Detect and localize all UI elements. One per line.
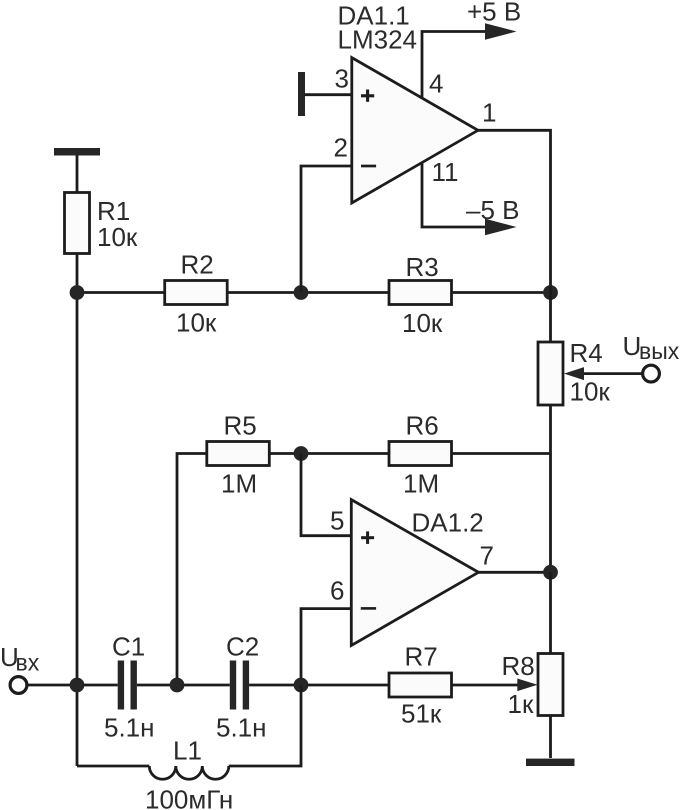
svg-text:3: 3 — [335, 64, 349, 94]
svg-text:R8: R8 — [502, 651, 535, 681]
node (pin2 junction) — [294, 285, 309, 300]
resistor R7 — [389, 673, 452, 697]
wire main row y=292 — [77, 291, 165, 294]
svg-text:11: 11 — [432, 157, 459, 187]
terminal bar (pin 3) — [298, 72, 305, 116]
+5V arrow — [485, 23, 517, 39]
svg-text:10к: 10к — [570, 377, 611, 407]
wire output pin 1 — [478, 130, 551, 292]
svg-text:7: 7 — [480, 541, 494, 571]
minus sign (pin 2 input) — [361, 165, 376, 168]
svg-text:C1: C1 — [112, 632, 145, 662]
R4 wiper arrow — [564, 367, 584, 380]
resistor R6 — [389, 442, 452, 466]
wire R2 to R3 — [227, 291, 389, 294]
input terminal circle Uвх — [10, 677, 27, 694]
wire pin 5 — [301, 454, 351, 536]
svg-text:C2: C2 — [226, 632, 259, 662]
potentiometer R4 — [538, 342, 563, 405]
svg-text:10к: 10к — [176, 308, 217, 338]
svg-text:R5: R5 — [224, 411, 257, 441]
wire R8 to ground — [549, 716, 552, 759]
svg-text:R7: R7 — [405, 642, 438, 672]
wire R4 bottom — [549, 405, 552, 572]
wire input to C1 — [28, 684, 118, 687]
wire pin 4 to +5V — [422, 32, 488, 99]
wire ground to R1 — [76, 155, 79, 193]
wire node to R4 — [549, 293, 552, 343]
wire pin 2 — [301, 166, 352, 293]
svg-text:1к: 1к — [508, 689, 534, 719]
wire R7 to R8 wiper — [452, 684, 522, 687]
svg-text:R4: R4 — [570, 338, 603, 368]
wire output pin 7 — [479, 571, 551, 574]
svg-text:DA1.2: DA1.2 — [412, 508, 484, 538]
resistor R2 — [165, 281, 228, 305]
svg-text:4: 4 — [429, 69, 443, 99]
svg-text:1M: 1M — [403, 469, 439, 499]
svg-text:100мГн: 100мГн — [145, 785, 233, 810]
-5V arrow — [485, 219, 517, 235]
svg-text:L1: L1 — [173, 736, 202, 766]
svg-text:1M: 1M — [221, 469, 257, 499]
svg-text:6: 6 — [330, 576, 344, 606]
svg-text:10к: 10к — [97, 222, 138, 252]
wire R5 to R6 — [269, 452, 389, 455]
minus sign (pin 6 input) — [361, 607, 376, 610]
node (input/left rail junction) — [70, 678, 85, 693]
wire pin 6 — [301, 609, 351, 685]
node (R5/R6/pin5 junction) — [294, 446, 309, 461]
node (R1/R2 junction) — [70, 285, 85, 300]
wire node to R8 — [549, 572, 552, 653]
wire R3 to right rail — [452, 291, 551, 294]
svg-text:R3: R3 — [406, 252, 439, 282]
svg-text:5.1н: 5.1н — [216, 713, 267, 743]
svg-text:+5 В: +5 В — [467, 0, 521, 27]
plus sign (pin 3 input) — [361, 90, 374, 102]
output terminal circle Uвых — [643, 365, 660, 382]
wire C2 to R7 — [249, 684, 389, 687]
capacitor C2 — [230, 661, 249, 710]
ground (top left) — [54, 148, 100, 156]
wire R1 down left rail — [76, 254, 79, 767]
svg-text:–5 В: –5 В — [466, 195, 520, 225]
wire L1 right — [229, 685, 301, 766]
resistor R3 — [389, 281, 452, 305]
potentiometer R8 — [538, 654, 563, 716]
node (C1/C2/R5 junction) — [170, 678, 185, 693]
resistor R1 — [65, 193, 90, 254]
wire pin 3 — [305, 93, 352, 96]
wire C1 to C2 — [137, 684, 230, 687]
wire L1 left — [77, 765, 149, 768]
op-amp U2 DA1.2 — [351, 500, 478, 646]
wire pin 11 to -5V — [422, 162, 488, 227]
svg-text:5.1н: 5.1н — [104, 713, 155, 743]
svg-text:вх: вх — [16, 650, 40, 676]
node (pin7/R8 junction) — [543, 565, 558, 580]
ground (bottom right) — [526, 759, 575, 766]
svg-text:2: 2 — [334, 133, 348, 163]
svg-text:5: 5 — [330, 506, 344, 536]
svg-text:вых: вых — [639, 338, 680, 364]
node (C2/pin6/L1 junction) — [294, 678, 309, 693]
wire R5 left lead from bottom rail — [177, 454, 207, 686]
svg-text:R2: R2 — [181, 250, 214, 280]
op-amp U1 DA1.1 — [352, 58, 478, 203]
wire R6 to right rail — [452, 452, 551, 455]
svg-text:10к: 10к — [402, 308, 443, 338]
resistor R5 — [207, 442, 269, 466]
inductor L1 — [149, 766, 229, 779]
svg-text:LM324: LM324 — [338, 25, 418, 55]
svg-text:51к: 51к — [401, 699, 442, 729]
svg-text:1: 1 — [482, 98, 496, 128]
node (R3/R4/output junction) — [543, 285, 558, 300]
capacitor C1 — [118, 661, 137, 710]
svg-text:R6: R6 — [406, 411, 439, 441]
plus sign (pin 5 input) — [361, 531, 374, 544]
R8 wiper arrow — [517, 679, 537, 692]
